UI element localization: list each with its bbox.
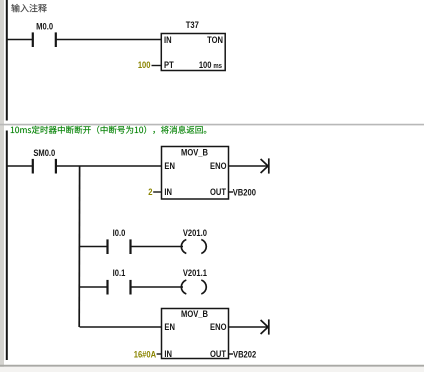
svg-text:V201.1: V201.1 bbox=[183, 267, 207, 278]
svg-text:M0.0: M0.0 bbox=[36, 21, 53, 32]
wire I0.1 to coil bbox=[131, 286, 184, 288]
svg-text:I0.1: I0.1 bbox=[113, 267, 126, 278]
left window-edge strip bbox=[0, 0, 4, 372]
ENO 1 wire and wrap arrow bbox=[229, 165, 269, 167]
svg-text:ms: ms bbox=[213, 62, 222, 70]
contact M0.0 bars bbox=[32, 32, 34, 47]
ENO 2 wire and wrap arrow bbox=[229, 326, 269, 328]
svg-text:OUT: OUT bbox=[210, 186, 227, 197]
OUT 1 pin tick bbox=[229, 191, 234, 193]
bottom window edge line bbox=[0, 365, 424, 367]
branch wire to I0.1 bbox=[80, 286, 108, 288]
svg-text:IN: IN bbox=[164, 34, 172, 45]
svg-text:SM0.0: SM0.0 bbox=[33, 147, 55, 158]
wire I0.0 to coil bbox=[131, 246, 184, 248]
contact SM0.0 bars bbox=[32, 159, 34, 174]
wire M0.0 to timer T37 bbox=[56, 39, 162, 41]
PT pin tick bbox=[152, 65, 162, 67]
wire rail to SM0.0 bbox=[7, 165, 33, 167]
svg-text:ENO: ENO bbox=[210, 160, 227, 171]
svg-text:ENO: ENO bbox=[210, 321, 227, 332]
svg-text:VB202: VB202 bbox=[233, 349, 256, 360]
network 2 comment (green) bbox=[11, 126, 207, 134]
svg-text:IN: IN bbox=[164, 348, 172, 359]
svg-text:100: 100 bbox=[199, 59, 212, 70]
coil V201.1 bbox=[181, 280, 186, 294]
network 2 power rail bbox=[6, 131, 8, 361]
svg-text:VB200: VB200 bbox=[233, 187, 256, 198]
IN 2 pin tick bbox=[157, 353, 162, 355]
branch wire to I0.0 bbox=[80, 246, 108, 248]
svg-text:2: 2 bbox=[148, 186, 152, 197]
svg-text:T37: T37 bbox=[186, 19, 199, 30]
bottom strip bbox=[0, 367, 424, 372]
contact I0.1 bars bbox=[106, 280, 108, 295]
timer TON box bbox=[161, 34, 225, 71]
OUT 2 pin tick bbox=[229, 353, 234, 355]
svg-text:MOV_B: MOV_B bbox=[181, 147, 208, 158]
svg-text:EN: EN bbox=[164, 160, 175, 171]
MOV_B box U1 bbox=[162, 147, 229, 200]
wire SM0.0 to MOV_B 1 bbox=[56, 165, 162, 167]
svg-text:V201.0: V201.0 bbox=[183, 227, 207, 238]
branch vertical wire bbox=[78, 166, 80, 327]
wire branch to MOV_B 2 bbox=[80, 326, 162, 328]
svg-text:100: 100 bbox=[138, 59, 151, 70]
IN 1 pin tick bbox=[153, 191, 161, 193]
svg-text:OUT: OUT bbox=[210, 348, 227, 359]
svg-text:16#0A: 16#0A bbox=[134, 349, 156, 360]
MOV_B box U2 bbox=[162, 309, 229, 359]
svg-text:EN: EN bbox=[164, 321, 175, 332]
svg-text:MOV_B: MOV_B bbox=[181, 308, 208, 319]
network 1 comment 输入注释 bbox=[11, 4, 46, 12]
svg-text:TON: TON bbox=[207, 34, 223, 45]
svg-text:PT: PT bbox=[164, 59, 174, 70]
network divider bbox=[0, 124, 424, 126]
coil V201.0 bbox=[181, 240, 186, 254]
svg-text:I0.0: I0.0 bbox=[113, 227, 126, 238]
wire rail to M0.0 bbox=[7, 39, 33, 41]
svg-text:IN: IN bbox=[164, 186, 172, 197]
contact I0.0 bars bbox=[106, 239, 108, 254]
network 1 power rail bbox=[6, 0, 8, 121]
